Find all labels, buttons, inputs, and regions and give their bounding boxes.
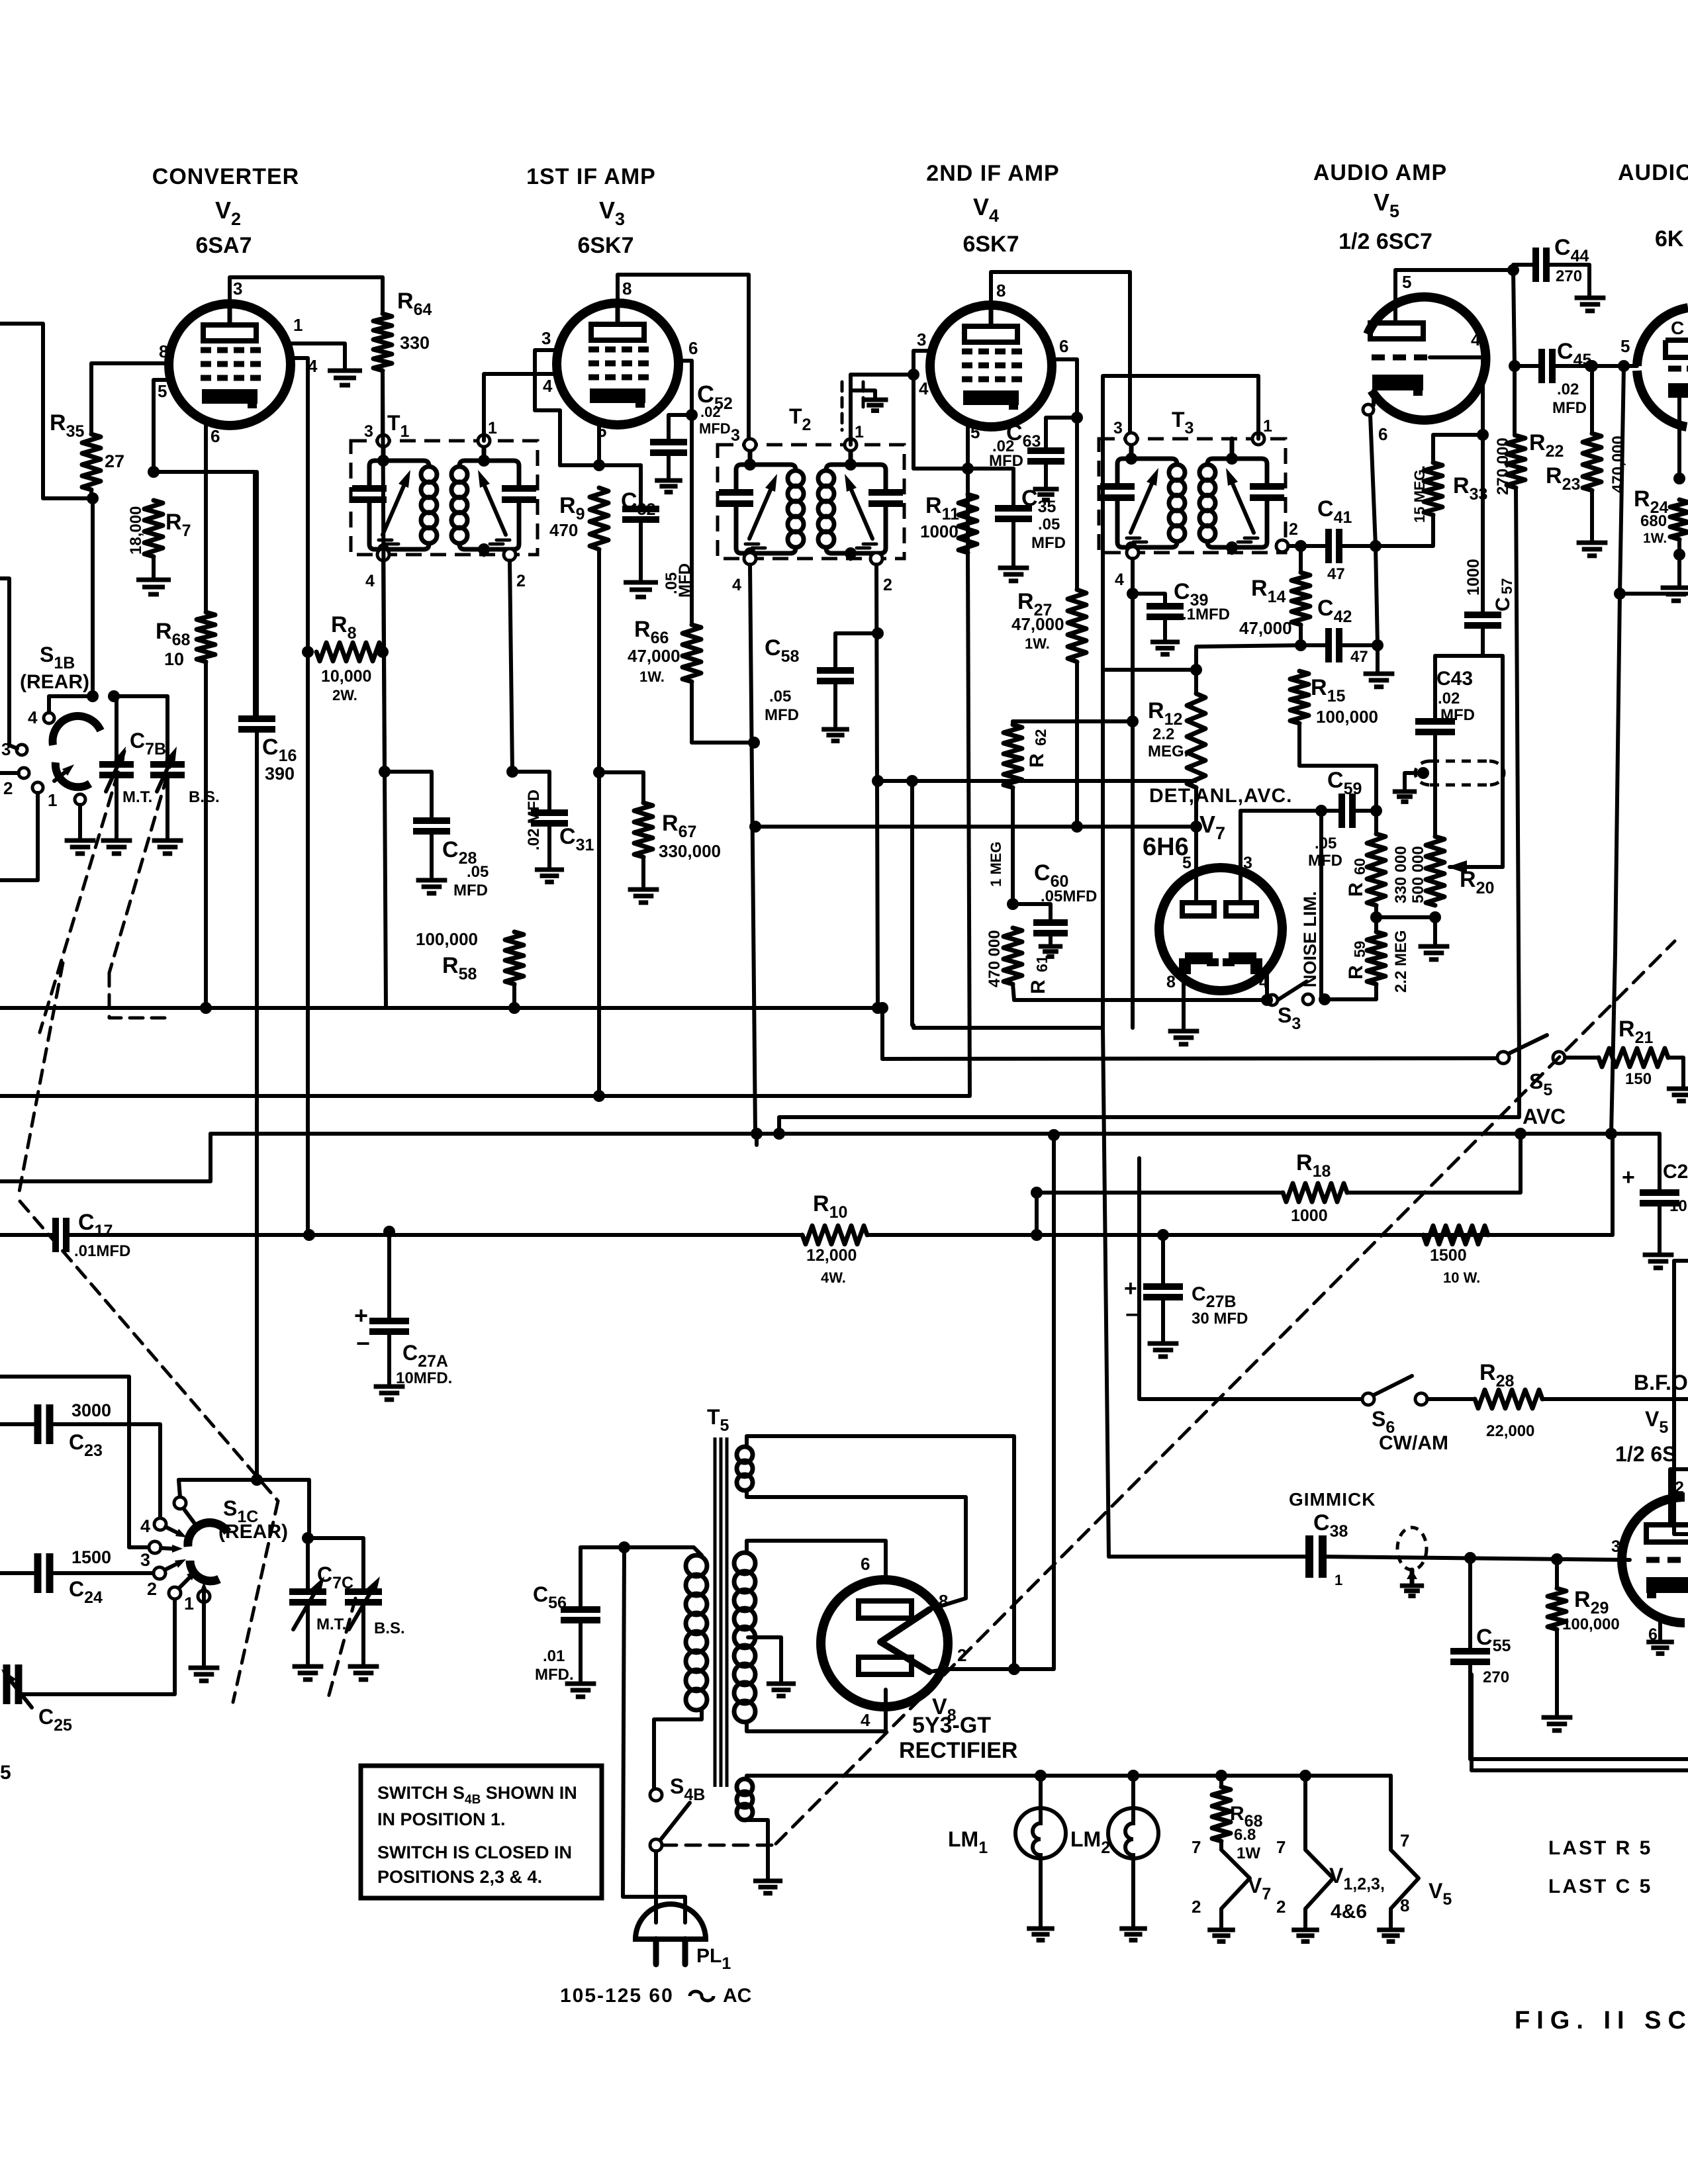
svg-text:1: 1 (184, 1594, 194, 1614)
ground C56 (565, 1682, 596, 1686)
wire R21 to ground (1668, 1058, 1683, 1086)
ground C32 (624, 580, 658, 585)
svg-text:CW/AM: CW/AM (1379, 1432, 1448, 1454)
ground V2 pin1 (328, 369, 362, 373)
dashed linkage S1C b (233, 1501, 278, 1702)
wire R20 to ground (1433, 917, 1437, 944)
S1C c2 arrow (165, 1564, 177, 1570)
svg-text:LAST C 5: LAST C 5 (1548, 1876, 1652, 1897)
capacitor C56 (561, 1606, 600, 1613)
C7B MT arrow (106, 762, 119, 792)
wire C41 to V5 cathode node (1339, 544, 1376, 548)
svg-text:4: 4 (1471, 330, 1481, 349)
output frame lower (1472, 1674, 1688, 1770)
capacitor C23 (34, 1404, 42, 1444)
wire C45 lead (1515, 364, 1542, 368)
wire R33 bottom (1376, 515, 1433, 546)
svg-text:MFD: MFD (989, 452, 1023, 470)
capacitor C17 (52, 1218, 59, 1252)
wire R15 bottom to C59 node (1299, 723, 1376, 808)
svg-text:1/2 6SC7: 1/2 6SC7 (1338, 229, 1432, 254)
C25 arrow (12, 1682, 32, 1707)
wire R14 bottom (1299, 625, 1303, 645)
IF transformer T3 (1099, 439, 1286, 553)
wire R68 bottom down (204, 662, 208, 1008)
wire V6 line right (1620, 592, 1688, 596)
terminal T1 pin3 (377, 435, 389, 447)
resistor R61 (1004, 928, 1022, 984)
ground C27B (1148, 1342, 1179, 1346)
junction T3pin4/R62 wire (1127, 715, 1139, 727)
svg-text:3: 3 (140, 1550, 150, 1570)
wire T1 pin1 to V3 pin4 (484, 374, 557, 441)
junction heater LM1 (1035, 1770, 1047, 1782)
svg-text:3000: 3000 (71, 1400, 111, 1420)
wire C55 bottom (1470, 1662, 1688, 1759)
svg-text:4&6: 4&6 (1331, 1901, 1367, 1923)
junction C58 tap (872, 627, 884, 639)
S6 right contact (1415, 1393, 1427, 1405)
S1B contact 2 (19, 768, 29, 778)
junction bus1866/x465 (303, 1229, 315, 1241)
wire V4 pin5 down (966, 427, 970, 553)
junction S1C feed/C16line (251, 1474, 263, 1486)
wire T1pin4 line to bus (385, 772, 386, 1008)
svg-text:4: 4 (861, 1710, 870, 1730)
svg-text:MFD: MFD (1552, 399, 1587, 417)
junction C59 right (1370, 805, 1382, 817)
wire S1B contact1 down (0, 793, 38, 880)
terminal T1 pin4 (377, 549, 389, 561)
output frame vertical (1674, 1261, 1688, 1534)
terminal T2 pin1 (845, 439, 857, 451)
svg-text:1W.: 1W. (1643, 531, 1667, 546)
wire C57 bottom node (1481, 625, 1485, 656)
svg-text:2W.: 2W. (332, 687, 357, 704)
bus y1713 (211, 1132, 1660, 1136)
svg-text:60: 60 (1351, 858, 1368, 875)
junction bus1866/C27B (1157, 1229, 1169, 1241)
V7 left cathode (1185, 958, 1213, 974)
wire C27A to ground (387, 1332, 391, 1384)
junction R14 bottom node (1295, 639, 1307, 651)
S1C c3 arrow (161, 1548, 172, 1549)
svg-text:1W.: 1W. (639, 668, 665, 685)
ground S1C rotor (189, 1666, 220, 1670)
wire R59 bottom to S3 (1325, 984, 1376, 999)
svg-text:10: 10 (1669, 1197, 1687, 1215)
wire S4B to plug prong (654, 1851, 658, 1923)
junction bus1713/R18 (1515, 1128, 1526, 1140)
S1B wafer arc 1 (53, 716, 101, 745)
wire LM1 bottom (1039, 1858, 1043, 1926)
variable capacitor C7B M.T. (99, 761, 134, 768)
wire S1C top feed (179, 1480, 309, 1538)
junction C63 node (1071, 412, 1083, 424)
junction R18 left (1031, 1187, 1043, 1199)
wire to C44 (1513, 263, 1536, 267)
svg-text:1500: 1500 (71, 1547, 111, 1567)
wire V2 pin1 to ground (289, 343, 345, 368)
wire S6 to R28 (1427, 1397, 1475, 1401)
svg-text:1000: 1000 (1464, 559, 1483, 596)
resistor R35 (82, 434, 101, 490)
S1B arrow (54, 772, 65, 781)
terminal T3 pin4 (1127, 547, 1139, 559)
svg-text:MFD: MFD (1308, 852, 1342, 870)
capacitor C27C (1640, 1189, 1679, 1196)
junction R12 pin5 line (1190, 821, 1202, 833)
svg-text:C43: C43 (1436, 668, 1473, 690)
svg-text:.05: .05 (1038, 516, 1060, 533)
svg-text:4: 4 (1259, 973, 1268, 991)
svg-text:FIG. II SCHE: FIG. II SCHE (1515, 2007, 1688, 2034)
svg-text:AUDIO: AUDIO (1618, 160, 1688, 185)
svg-text:.05: .05 (467, 863, 489, 881)
wire C39 branch (1133, 594, 1165, 606)
IF transformer T2 (718, 445, 904, 559)
svg-text:5: 5 (1620, 336, 1630, 356)
wire C27B to ground (1161, 1297, 1165, 1341)
svg-text:+: + (1124, 1276, 1137, 1301)
T5 primary top (624, 1547, 702, 1555)
svg-text:R: R (1026, 753, 1048, 768)
junction C52 node (686, 409, 698, 421)
wire plate node down (1513, 270, 1515, 366)
wire to C38 (1109, 1555, 1308, 1559)
svg-text:.02: .02 (1438, 690, 1460, 707)
output frame upper (1674, 1259, 1688, 1263)
resistor R58 (505, 932, 524, 984)
wire R11 bottom down (968, 553, 970, 1095)
wire left edge feed to R35 node (0, 324, 91, 498)
capacitor C59 (1338, 794, 1345, 828)
svg-text:100,000: 100,000 (416, 929, 478, 949)
wire C24 left (0, 1571, 38, 1575)
S1C c4 arrow (165, 1527, 177, 1533)
plug prong left (653, 1939, 659, 1964)
wire R28 to BFO (1542, 1397, 1688, 1401)
ground V123 heater (1291, 1928, 1319, 1933)
svg-text:IN POSITION 1.: IN POSITION 1. (377, 1809, 506, 1829)
wire C59 right lead (1352, 809, 1376, 813)
svg-text:R: R (1027, 979, 1049, 994)
svg-text:1ST IF AMP: 1ST IF AMP (526, 164, 656, 189)
svg-text:+: + (1622, 1165, 1635, 1190)
ground S1B rotor (65, 839, 96, 843)
junction V6 line (1614, 588, 1626, 600)
bus B+ y1523 (0, 1006, 882, 1010)
svg-text:470 000: 470 000 (986, 930, 1004, 987)
svg-text:1000: 1000 (1291, 1206, 1328, 1225)
wire V4 plate pin8 to T3 pin3 (991, 272, 1130, 439)
svg-text:30 MFD: 30 MFD (1192, 1310, 1248, 1328)
capacitor C45 (1538, 349, 1545, 383)
wire T3 pin4 down (1131, 559, 1135, 1028)
svg-text:680: 680 (1640, 512, 1667, 530)
wire R12 bottom (1194, 788, 1198, 827)
tube V7 6H6 circle (1159, 868, 1282, 991)
svg-text:MFD: MFD (1440, 706, 1475, 724)
capacitor C57 (1464, 612, 1501, 618)
bus y1866 (0, 1233, 56, 1237)
svg-text:1500: 1500 (1430, 1246, 1467, 1265)
V8 pin8 lead (929, 1598, 966, 1610)
ground C28 (416, 878, 447, 883)
wire C24 to S1C c2 (50, 1571, 154, 1575)
svg-text:6SK7: 6SK7 (962, 232, 1019, 257)
junction bus1713/C2 (1605, 1128, 1617, 1140)
terminal T2 pin3 (744, 439, 756, 451)
svg-text:.05: .05 (1315, 835, 1336, 852)
wire cathode node down to C42 node (1376, 546, 1378, 645)
dashed linkage S1C (20, 1201, 278, 1501)
tube V2 6SA7 (169, 304, 291, 426)
V7 right cathode (1229, 958, 1256, 974)
svg-text:GIMMICK: GIMMICK (1289, 1489, 1376, 1510)
svg-text:61: 61 (1033, 955, 1051, 972)
wire S1B rotor to ground (78, 805, 82, 838)
resistor R14 (1291, 572, 1310, 625)
terminal T1 pin1 (478, 435, 490, 447)
wire C57/C43 tie (1435, 656, 1503, 867)
heater V7 pins (1221, 1841, 1250, 1927)
resistor R32 (1423, 1226, 1488, 1244)
svg-text:100,000: 100,000 (1562, 1615, 1620, 1633)
resistor R62 (1004, 725, 1022, 788)
bus branch y1785 (0, 1134, 211, 1181)
ground C7B BS (152, 839, 183, 843)
wire LM2 top (1131, 1776, 1135, 1808)
wire R60 top (1374, 811, 1378, 834)
wire V3 pin3 staircase (535, 350, 560, 465)
wire T2 pin2 down (876, 565, 878, 1008)
capacitor C41 (1325, 529, 1332, 563)
svg-text:2.2 MEG: 2.2 MEG (1392, 930, 1410, 993)
wire R20 pot top (1433, 772, 1437, 837)
capacitor C27B (1143, 1283, 1183, 1290)
resistor R23 (1583, 433, 1601, 490)
svg-text:4: 4 (543, 376, 553, 396)
wire V2 plate pin3 to R64 top (230, 277, 383, 314)
svg-text:22,000: 22,000 (1486, 1422, 1534, 1440)
junction bus1523 end (876, 1002, 888, 1014)
R20 wiper arrow (1467, 865, 1503, 869)
svg-text:4: 4 (1115, 570, 1124, 589)
svg-text:RECTIFIER: RECTIFIER (899, 1738, 1017, 1763)
resistor R29 (1548, 1588, 1566, 1629)
S1C rotor arrow (202, 1592, 206, 1602)
svg-text:1: 1 (1263, 417, 1272, 435)
junction R24 top (1673, 473, 1685, 484)
S5 lever (1509, 1035, 1547, 1054)
S1C contact 3 (149, 1541, 161, 1553)
svg-text:6: 6 (211, 426, 220, 446)
ground C44 (1575, 296, 1606, 300)
wire C7C MT to ground (306, 1602, 310, 1664)
wire R23 bottom (1590, 490, 1594, 540)
svg-text:1/2 6S: 1/2 6S (1615, 1442, 1677, 1466)
wire R33 top (1433, 435, 1483, 463)
svg-text:47: 47 (1350, 648, 1368, 666)
wire R32 right to C2 line (1488, 1134, 1613, 1235)
wire V6 cathode down (1677, 398, 1681, 478)
resistor R21 (1599, 1048, 1668, 1067)
junction T2pin2/V7 wire (872, 775, 884, 787)
svg-text:6SA7: 6SA7 (195, 233, 252, 258)
wire R20 bottom tie (1376, 915, 1435, 919)
S6 lever (1374, 1376, 1412, 1395)
resistor R67 (634, 803, 653, 857)
resistor R59 (1367, 932, 1385, 984)
wire C43 top tie (1433, 656, 1437, 721)
svg-text:+: + (354, 1302, 368, 1329)
ground BFO cathode (1646, 1640, 1674, 1645)
svg-text:6: 6 (688, 338, 698, 358)
wire R61 bottom to S3 wire (1013, 984, 1014, 1000)
T5 primary coil (686, 1555, 707, 1576)
resistor R10 (802, 1226, 867, 1244)
ground R23 (1577, 541, 1608, 545)
wire R7 bottom (152, 557, 156, 577)
wire C27B stem (1161, 1235, 1165, 1287)
svg-text:3: 3 (1113, 419, 1123, 437)
wire R66 bottom to T2 pin4 line (692, 682, 754, 743)
junction C59 left (1315, 805, 1327, 817)
wire C32 to ground (639, 520, 643, 580)
wire V7 pin5 up-left (755, 827, 1196, 903)
wire C42 gnd stem (1376, 645, 1380, 671)
V5 cathode terminal (1363, 404, 1374, 415)
wire T3 pin1 to V5 input line (1103, 376, 1258, 1027)
svg-text:8: 8 (1166, 973, 1176, 991)
wire R68b top (1219, 1776, 1223, 1787)
resistor R64 (373, 314, 392, 371)
ground C31 (535, 868, 564, 872)
svg-text:1 MEG: 1 MEG (988, 842, 1004, 887)
junction R27/V7pin5wire (1071, 821, 1083, 833)
junction V4 pin3 riser (908, 369, 919, 381)
T5 core (715, 1437, 727, 1787)
svg-text:3: 3 (1611, 1537, 1620, 1556)
svg-text:C: C (1671, 318, 1684, 338)
svg-text:10: 10 (164, 649, 184, 669)
dashed linkage S1B a (40, 751, 124, 1032)
wire T3 pin2 to C41 (1288, 544, 1329, 548)
T5 heater coil (737, 1779, 753, 1795)
T5 HV center tap (748, 1637, 781, 1681)
ground R29 (1542, 1715, 1573, 1720)
wire V5 grid pin4 (1430, 357, 1483, 615)
junction R24 bottom (1673, 549, 1685, 561)
capacitor C42 (1325, 628, 1332, 662)
junction V8 pin2/5V (1008, 1663, 1020, 1675)
svg-text:MFD: MFD (1031, 534, 1066, 552)
wire R64 line through R8 down (383, 371, 385, 772)
wire V6 line down further (1611, 594, 1620, 1134)
wire R23 top (1590, 366, 1594, 433)
dashed linkage diagonal (776, 941, 1675, 1844)
wire R64 bottom to T1 pin3 (381, 371, 385, 436)
S1C contact 4 (154, 1518, 166, 1530)
S1B wafer arc 2 (56, 762, 90, 787)
svg-text:18,000: 18,000 (127, 506, 145, 555)
junction R8 left (302, 646, 314, 658)
junction C42 right (1372, 639, 1383, 651)
svg-text:MFD: MFD (453, 882, 488, 899)
svg-text:8: 8 (1400, 1895, 1409, 1915)
ground V7 heater (1207, 1928, 1235, 1933)
svg-text:DET,ANL,AVC.: DET,ANL,AVC. (1149, 785, 1292, 807)
wire V5 cathode to node (1370, 415, 1376, 546)
resistor R7 (144, 500, 163, 557)
svg-text:B.S.: B.S. (374, 1619, 405, 1637)
S4B lever (660, 1803, 690, 1841)
capacitor C27A (369, 1318, 409, 1324)
V7 left plate (1182, 903, 1214, 916)
T5 HV top lead (747, 1541, 886, 1582)
wire C23 left (0, 1422, 38, 1426)
wire C58 to ground (833, 681, 837, 727)
capacitor C32 (622, 506, 659, 512)
wire NL riser down (1319, 811, 1323, 999)
V8 upper plate (859, 1601, 912, 1618)
S3 right contact (1303, 994, 1313, 1005)
S5 left contact (1497, 1052, 1509, 1064)
S1B contact 4 (44, 713, 54, 723)
variable capacitor C7C B.S. (345, 1588, 382, 1595)
dashed linkage S1B b (109, 754, 173, 973)
resistor R33 (1424, 463, 1442, 515)
S1B c3 link (9, 745, 17, 749)
ground V5 heater (1377, 1928, 1405, 1933)
resistor R20 pot (1426, 837, 1444, 905)
shield wire to ground (853, 390, 875, 397)
junction bus1713 x1177 (773, 1128, 785, 1140)
heater V123 pins (1305, 1776, 1333, 1927)
tube V5 arc (1368, 297, 1485, 420)
resistor R9 (590, 488, 608, 549)
wire V7 pin4 to S3 (1014, 969, 1267, 1000)
svg-text:4: 4 (732, 576, 741, 594)
svg-text:(REAR): (REAR) (218, 1521, 288, 1543)
svg-text:LAST R 5: LAST R 5 (1548, 1837, 1652, 1859)
wire R60 bottom (1374, 905, 1378, 932)
wire T2 pin1 riser (851, 375, 914, 445)
junction S1B top b (108, 690, 120, 702)
wire C59 line (1241, 809, 1321, 813)
BFO cathode to ground (1658, 1621, 1662, 1639)
wire C39 to ground (1163, 617, 1167, 639)
wire C25 to S1C c1 (19, 1599, 175, 1694)
T5 5V bottom lead (747, 1490, 966, 1598)
wire S1B contact2 left (0, 771, 19, 775)
resistor R11 (959, 494, 977, 553)
svg-text:2: 2 (3, 778, 13, 798)
terminal T2 pin2 (870, 553, 882, 565)
wire S1C rotor to ground (202, 1602, 206, 1665)
junction heater V123 (1299, 1770, 1311, 1782)
capacitor C58 (817, 667, 854, 674)
wire C27C to ground (1658, 1203, 1662, 1252)
ground gimmick (1400, 1584, 1424, 1588)
wire B+ bus to V8 (755, 1134, 759, 1145)
ground LM2 (1119, 1927, 1147, 1931)
wire T1 pin2 down (510, 561, 512, 772)
capacitor C38 (1305, 1535, 1313, 1578)
capacitor C60 (1033, 919, 1068, 926)
T5 HV coil (734, 1553, 755, 1574)
